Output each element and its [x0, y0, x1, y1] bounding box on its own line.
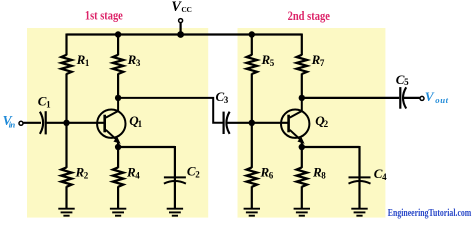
resistor R2	[61, 167, 71, 186]
node: base node 2 dot	[249, 120, 255, 126]
svg-text:6: 6	[269, 170, 274, 180]
node: Vcc rail dot	[177, 31, 184, 38]
capacitor C2 curved plate	[164, 181, 186, 184]
wire: R7 to collector node 2	[301, 74, 303, 98]
wire: emitter node to R4	[117, 147, 119, 168]
wire: R5 to base node 2 to R6	[251, 74, 253, 168]
capacitor C5 curved plate	[403, 87, 406, 108]
resistor R6	[247, 167, 257, 186]
transistor Q1 base bar	[103, 115, 106, 133]
transistor Q2 base bar	[287, 115, 290, 133]
wire: Vcc stub	[180, 23, 182, 35]
capacitor C1 flat plate	[45, 111, 47, 134]
wire: Q2 collector to C5	[302, 97, 399, 99]
capacitor C4 flat plate	[349, 176, 371, 178]
wire: Vcc rail	[67, 33, 302, 35]
transistor Q1 circle	[97, 110, 125, 138]
svg-text:1: 1	[46, 100, 51, 110]
svg-text:in: in	[9, 120, 16, 130]
capacitor C5 flat plate	[399, 87, 401, 109]
wire: emitter node to C2	[118, 146, 175, 148]
svg-text:1: 1	[85, 58, 90, 68]
resistor R7	[297, 55, 307, 74]
wire: rail to R3	[117, 34, 119, 56]
ground (R6)	[244, 208, 260, 210]
ground (C2)	[167, 208, 183, 210]
wire: base node to Q1	[67, 122, 105, 124]
wire: emitter node 2 to R8	[301, 147, 303, 168]
wire: C3 to base node 2	[227, 122, 252, 124]
svg-text:2: 2	[324, 119, 329, 129]
capacitor C3 flat plate	[223, 112, 225, 134]
Vin terminal	[19, 121, 23, 125]
resistor R3	[113, 55, 123, 74]
wire: Q2 emitter to node	[301, 141, 303, 148]
ground (R2)	[58, 208, 74, 210]
resistor R8	[297, 167, 307, 186]
svg-text:V: V	[425, 89, 435, 104]
wire: base node 2 to Q2	[252, 122, 289, 124]
resistor R5	[247, 55, 257, 74]
svg-text:CC: CC	[181, 5, 191, 14]
capacitor C3 curved plate	[226, 112, 229, 134]
wire: Q1 emitter to node	[117, 141, 119, 148]
Vcc terminal	[179, 19, 183, 23]
node: Q1 collector dot	[115, 95, 121, 101]
wire: R8 to ground	[301, 186, 303, 209]
node: Q1 emitter dot	[115, 144, 121, 150]
node: Q2 collector dot	[299, 95, 305, 101]
wire: R2 to ground	[65, 186, 67, 209]
ground (R8)	[294, 208, 310, 210]
wire: R1 to base node to R2	[65, 74, 67, 168]
capacitor C4 curved plate	[349, 181, 371, 184]
Vout terminal	[420, 96, 424, 100]
ground (R4)	[110, 208, 126, 210]
wire: emitter node 2 to C4	[302, 146, 360, 148]
wire: Q1 collector to C3	[118, 98, 223, 123]
svg-text:2nd stage: 2nd stage	[288, 8, 330, 23]
svg-text:5: 5	[270, 58, 275, 68]
wire: R4 to ground	[117, 186, 119, 209]
wire: rail to R7	[301, 34, 303, 56]
svg-text:3: 3	[136, 58, 141, 68]
wire: R3 to collector node	[117, 74, 119, 98]
node: rail-R5 dot	[249, 31, 255, 37]
svg-text:8: 8	[321, 170, 326, 180]
wire: C2 branch vertical	[174, 146, 176, 209]
node: base node 1 dot	[63, 120, 69, 126]
wire: rail to R1	[65, 34, 67, 56]
wire: C1 to base node	[46, 122, 67, 124]
wire: rail to R5	[251, 34, 253, 56]
transistor Q1 collector	[106, 98, 118, 118]
svg-text:EngineeringTutorial.com: EngineeringTutorial.com	[388, 207, 472, 219]
svg-text:3: 3	[224, 95, 229, 105]
1st stage highlight box	[27, 28, 208, 218]
transistor Q1 emitter arrow	[113, 137, 120, 144]
svg-text:4: 4	[382, 172, 387, 182]
capacitor C1 curved plate	[40, 112, 43, 134]
wire: C4 branch vertical	[358, 146, 360, 209]
svg-text:5: 5	[404, 77, 409, 87]
transistor Q2 emitter	[290, 130, 302, 141]
2nd stage highlight box	[238, 28, 386, 218]
transistor Q1 emitter	[106, 130, 118, 141]
svg-text:1: 1	[138, 119, 143, 129]
svg-text:out: out	[435, 95, 448, 105]
transistor Q2 collector	[290, 98, 302, 118]
resistor R4	[113, 167, 123, 186]
node: rail-R3 dot	[115, 31, 121, 37]
transistor Q2 circle	[281, 110, 309, 138]
wire: C5 to Vout	[403, 97, 420, 99]
svg-text:2: 2	[195, 169, 200, 179]
wire: R6 to ground	[251, 186, 253, 209]
resistor R1	[61, 55, 71, 74]
transistor Q2 emitter arrow	[297, 137, 304, 144]
svg-text:2: 2	[84, 170, 89, 180]
wire: Vin to C1	[23, 122, 41, 124]
ground (C4)	[351, 208, 367, 210]
svg-text:4: 4	[135, 170, 140, 180]
svg-text:1st stage: 1st stage	[85, 7, 123, 22]
capacitor C2 flat plate	[164, 176, 186, 178]
node: Q2 emitter dot	[299, 144, 305, 150]
svg-text:7: 7	[320, 58, 325, 68]
